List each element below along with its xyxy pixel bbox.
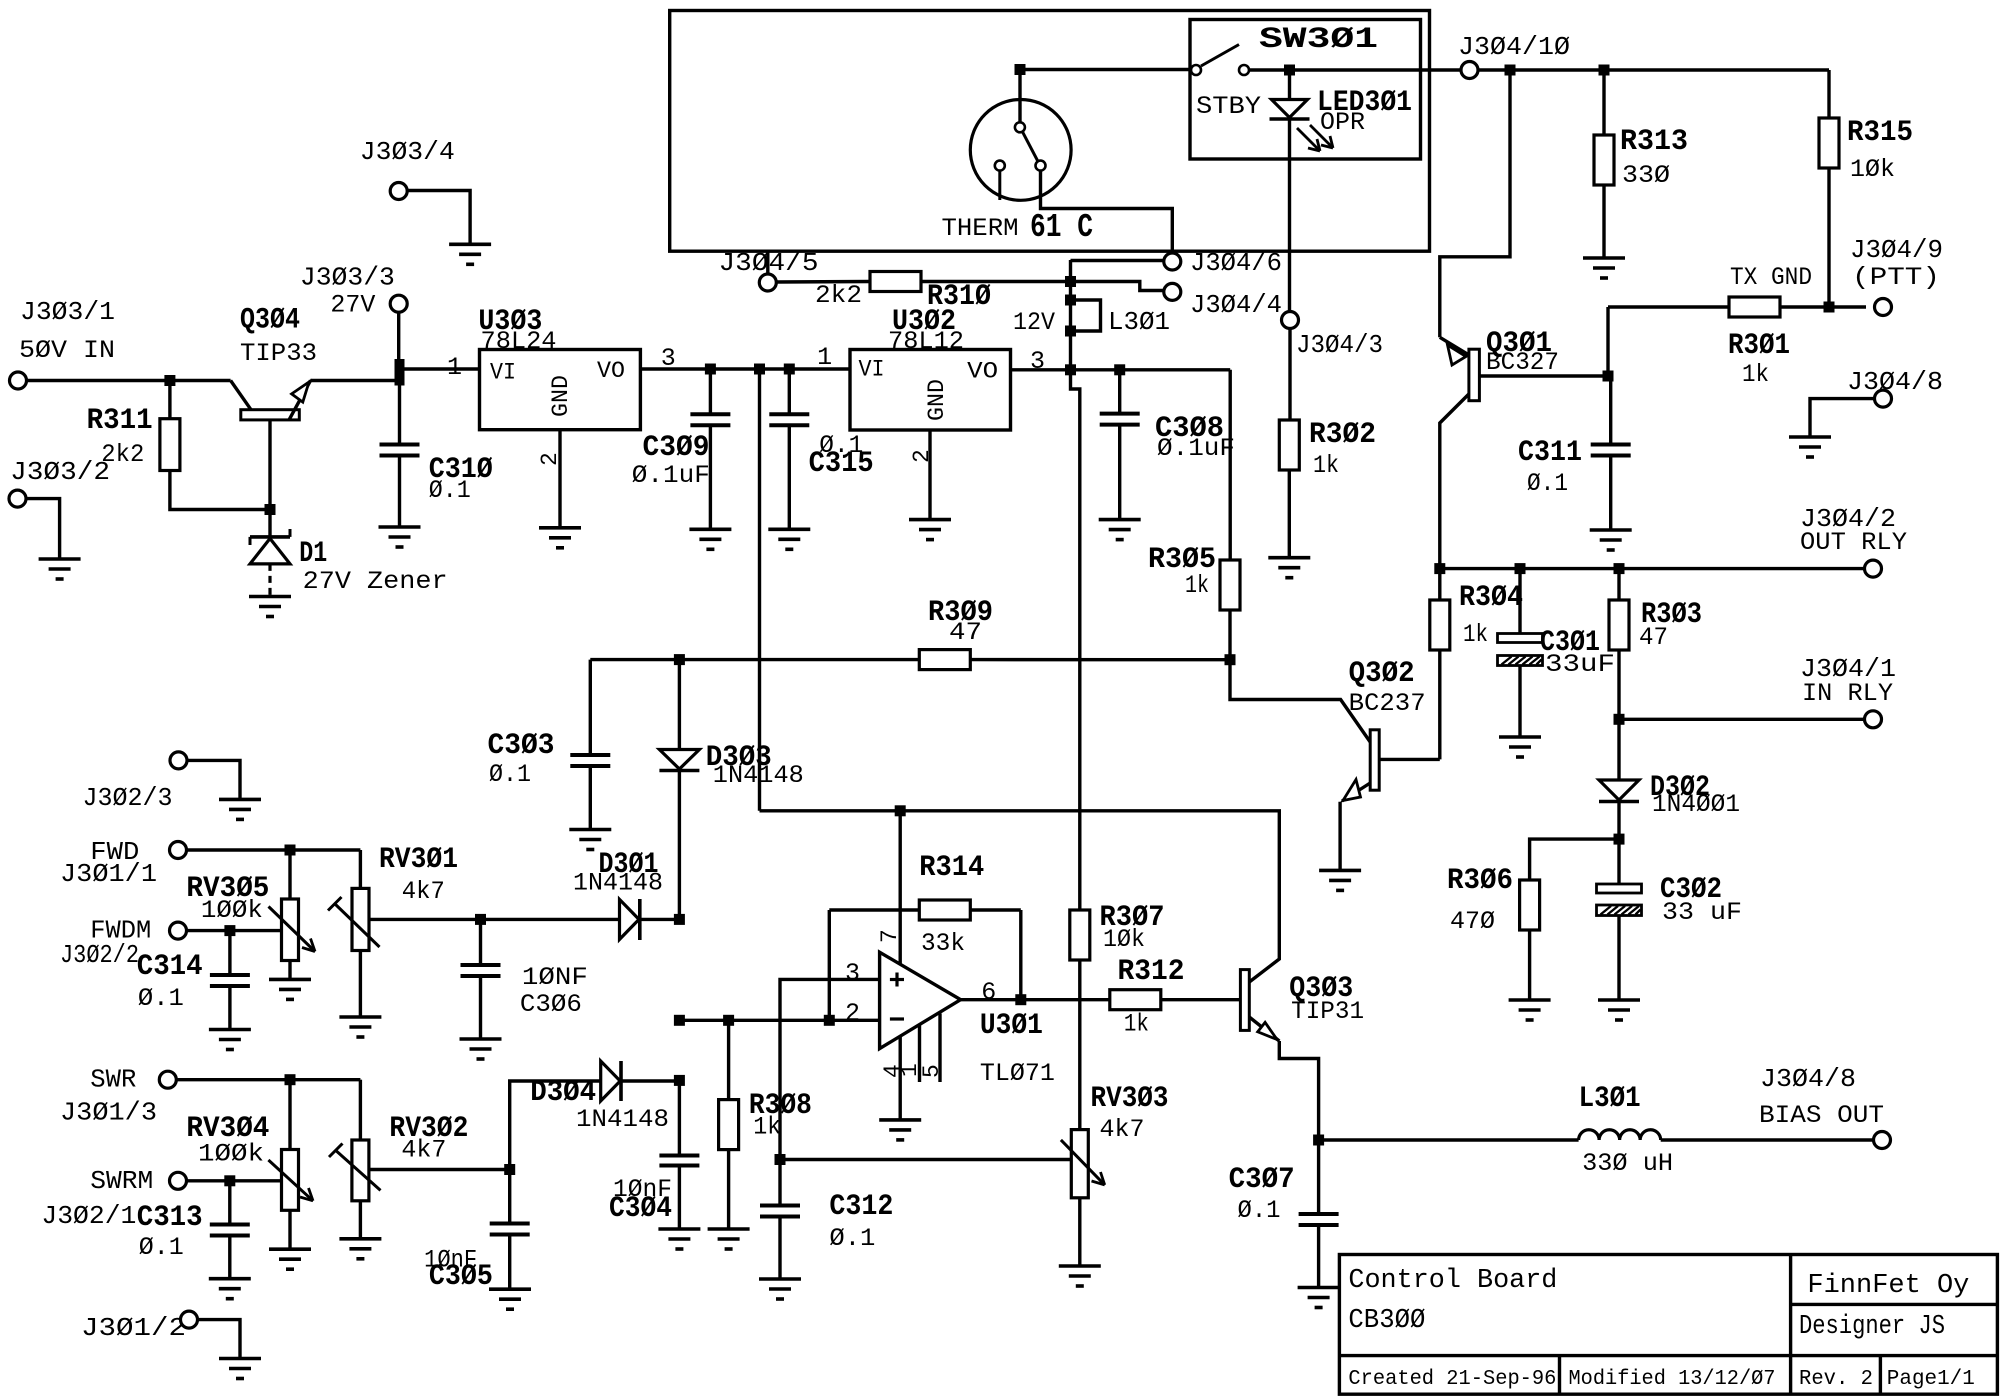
node D302 anode — [1614, 834, 1625, 845]
resistor R303 — [1617, 569, 1620, 600]
svg-text:J3Ø4/3: J3Ø4/3 — [1296, 330, 1383, 360]
wire R305 node to Q302 base — [1230, 660, 1370, 742]
svg-text:GND: GND — [924, 379, 950, 421]
switch SW301 left contact — [1191, 65, 1201, 75]
node C314 — [224, 925, 235, 936]
svg-text:J3Ø4/8: J3Ø4/8 — [1760, 1064, 1856, 1094]
capacitor C315 — [788, 369, 791, 414]
svg-text:J3Ø3/4: J3Ø3/4 — [360, 137, 455, 167]
wire to J304/4 — [1071, 282, 1164, 291]
svg-text:1N4148: 1N4148 — [573, 869, 663, 898]
node RV304 top — [285, 1074, 296, 1085]
terminal J304/1 — [1865, 711, 1882, 728]
ground below Q302 — [1319, 869, 1361, 873]
svg-text:BIAS OUT: BIAS OUT — [1759, 1101, 1884, 1130]
ground below C312 — [759, 1277, 801, 1281]
terminal J303/2 — [9, 490, 26, 507]
node D304 branch — [504, 1164, 515, 1175]
Q304 emitter arrow — [292, 382, 309, 402]
terminal J301/2 — [181, 1311, 198, 1328]
Q302 emitter arrow — [1343, 780, 1361, 801]
svg-text:2: 2 — [537, 452, 563, 466]
wire pin2 bus — [679, 1019, 879, 1022]
svg-text:C3Ø9: C3Ø9 — [643, 431, 710, 465]
feedback left vertical — [828, 910, 831, 1020]
wire BIAS to L301 — [1319, 1138, 1579, 1141]
wire pin3 — [780, 979, 880, 1159]
node C315 — [784, 364, 795, 375]
node D301/D303 — [674, 914, 685, 925]
node D304/D303 — [674, 1075, 685, 1086]
terminal J304/8 top — [1875, 390, 1892, 407]
svg-text:1N4148: 1N4148 — [576, 1105, 669, 1134]
svg-text:VO: VO — [597, 358, 625, 384]
terminal J304/6 — [1164, 253, 1181, 270]
node output/feedback — [1015, 994, 1026, 1005]
terminal J303/1 50V IN — [10, 372, 27, 389]
svg-text:1N4ØØ1: 1N4ØØ1 — [1652, 790, 1740, 819]
node R313 feed — [1599, 65, 1610, 76]
capacitor C303 — [589, 660, 592, 755]
svg-text:47: 47 — [1639, 623, 1668, 652]
ground below C302 — [1598, 998, 1640, 1002]
wire 50V IN — [27, 379, 231, 382]
node 24V drop — [754, 364, 765, 375]
wire RV303 wiper — [780, 1158, 1071, 1161]
RV303 arrow — [1061, 1140, 1105, 1185]
svg-text:6: 6 — [981, 978, 996, 1007]
svg-text:J3Ø4/1Ø: J3Ø4/1Ø — [1458, 32, 1570, 62]
terminal J304/3 — [1282, 312, 1299, 329]
capacitor C311 — [1608, 374, 1611, 377]
svg-text:1Øk: 1Øk — [1103, 925, 1145, 954]
capacitor C301 electrolytic — [1518, 569, 1521, 634]
node Q304 collector / D1 — [265, 504, 276, 515]
svg-text:Designer JS: Designer JS — [1799, 1312, 1945, 1342]
LED LED301 — [1284, 65, 1295, 76]
node R308 top — [723, 1015, 734, 1026]
svg-text:7: 7 — [877, 929, 903, 943]
U302 pin2 ground lead — [928, 430, 931, 520]
resistor R307 — [1070, 910, 1090, 960]
pin4 ground lead — [899, 1037, 902, 1120]
node C306 — [475, 914, 486, 925]
capacitor C308 — [1118, 370, 1121, 414]
ground below R306 — [1509, 998, 1551, 1002]
regulator U302 78L12 box — [850, 350, 1011, 431]
trimmer RV302 — [352, 1140, 369, 1201]
wire 24V rail to Q303 collector — [760, 811, 1280, 982]
svg-text:Created 21-Sep-96: Created 21-Sep-96 — [1348, 1368, 1556, 1391]
ground below J304/8 — [1789, 435, 1831, 439]
wire U302 VO 12V — [1011, 368, 1231, 371]
svg-text:TLØ71: TLØ71 — [980, 1059, 1055, 1088]
wire to J304/6 — [1071, 259, 1164, 262]
RV305 arrow — [269, 907, 316, 952]
RV304 ground lead — [288, 1210, 291, 1249]
resistor R311 — [168, 381, 171, 419]
svg-text:R3Ø1: R3Ø1 — [1728, 329, 1790, 363]
svg-text:C3Ø6: C3Ø6 — [520, 990, 582, 1019]
svg-text:C3Ø4: C3Ø4 — [609, 1192, 672, 1226]
svg-text:TIP33: TIP33 — [240, 339, 317, 368]
svg-text:Ø.1: Ø.1 — [139, 1233, 184, 1262]
Q303 emitter wire — [1249, 1017, 1279, 1041]
node R311 top — [164, 375, 175, 386]
svg-text:R312: R312 — [1118, 955, 1185, 989]
svg-text:GND: GND — [548, 375, 574, 417]
diode D303 — [678, 660, 681, 750]
terminal FWD — [170, 842, 187, 859]
capacitor C313 — [228, 1181, 231, 1225]
terminal J303/4 — [390, 183, 407, 200]
ground below C305 — [489, 1287, 531, 1291]
svg-text:R313: R313 — [1620, 125, 1688, 159]
wire SWRM to RV304 — [187, 1179, 282, 1182]
svg-text:J3Ø3/1: J3Ø3/1 — [20, 297, 115, 327]
node C301 — [1515, 563, 1526, 574]
node RV305 top — [285, 845, 296, 856]
resistor R302 — [1288, 329, 1291, 421]
svg-text:1ØØk: 1ØØk — [198, 1140, 264, 1169]
title block bottom divider 2 — [1879, 1356, 1882, 1395]
capacitor C305 — [508, 1170, 511, 1224]
svg-text:R311: R311 — [87, 404, 153, 438]
wire J301/2 to ground — [198, 1320, 241, 1359]
svg-text:1k: 1k — [1742, 360, 1769, 389]
svg-text:1k: 1k — [1313, 451, 1339, 480]
svg-text:Ø.1: Ø.1 — [429, 476, 471, 505]
zener diode D1 — [268, 510, 271, 537]
svg-text:1Øk: 1Øk — [1850, 155, 1895, 184]
terminal J304/10 — [1461, 62, 1478, 79]
node pin7 12V — [895, 805, 906, 816]
terminal J304/9 — [1875, 299, 1892, 316]
svg-text:(PTT): (PTT) — [1852, 263, 1940, 292]
thermal switch enclosure box — [670, 11, 1430, 252]
svg-text:J3Ø4/6: J3Ø4/6 — [1190, 248, 1282, 278]
svg-text:1ØØk: 1ØØk — [201, 896, 263, 925]
svg-text:C3Ø3: C3Ø3 — [488, 729, 555, 763]
svg-text:J3Ø1/1: J3Ø1/1 — [60, 859, 157, 889]
wire SWR bus — [176, 1078, 360, 1081]
Q304 emitter diag — [289, 381, 311, 420]
plus sign U301 — [890, 978, 904, 981]
Q301 collector wire — [1440, 394, 1469, 569]
svg-text:27V: 27V — [330, 291, 375, 320]
ground below C313 — [209, 1277, 251, 1281]
ground below C306 — [460, 1037, 502, 1041]
minus sign U301 — [890, 1017, 904, 1020]
wire L301 to J304/8 — [1661, 1138, 1874, 1141]
svg-text:OUT RLY: OUT RLY — [1800, 528, 1907, 557]
capacitor C312 — [778, 1160, 781, 1206]
THERM lever — [1023, 132, 1039, 162]
wire J304/10 to R315 — [1478, 68, 1829, 71]
ground below C314 — [209, 1028, 251, 1032]
ground below C311 — [1590, 528, 1632, 532]
wire OUT RLY bus — [1440, 567, 1865, 570]
wire STBY/OPR bus y70 inside box — [1020, 68, 1192, 71]
wire Q304 emitter to node — [311, 379, 396, 382]
LED301 emission arrows — [1297, 128, 1320, 151]
svg-text:3: 3 — [845, 959, 860, 988]
ground below J302/3 — [219, 798, 261, 802]
svg-text:FinnFet Oy: FinnFet Oy — [1807, 1271, 1969, 1301]
wire up to D304 — [510, 1081, 601, 1170]
transistor Q301 BC327 bar — [1469, 349, 1480, 401]
svg-text:C3Ø7: C3Ø7 — [1229, 1163, 1295, 1197]
diode D302 — [1617, 719, 1620, 780]
Q303 emitter arrow — [1258, 1022, 1277, 1039]
D1 dashed lead — [268, 564, 271, 595]
resistor R308 — [727, 1020, 730, 1099]
svg-text:Ø.1: Ø.1 — [829, 1224, 875, 1253]
svg-text:U3Ø1: U3Ø1 — [980, 1009, 1043, 1043]
wire 12V jog down — [1071, 370, 1080, 910]
regulator U303 78L24 box — [480, 350, 641, 430]
capacitor C314 — [228, 931, 231, 975]
svg-text:1k: 1k — [1463, 620, 1488, 649]
svg-text:SW3Ø1: SW3Ø1 — [1259, 23, 1378, 57]
trimmer RV304 — [288, 1080, 291, 1150]
transistor Q302 BC237 bar — [1370, 730, 1379, 790]
capacitor C309 — [709, 369, 712, 414]
svg-text:R314: R314 — [919, 851, 984, 885]
svg-text:Ø.1uF: Ø.1uF — [1157, 434, 1235, 463]
ground below R302 — [1268, 556, 1310, 560]
terminal J304/8 BIAS OUT — [1874, 1132, 1891, 1149]
node THERM top feed — [1015, 64, 1026, 75]
node R303 — [1614, 563, 1625, 574]
svg-text:1k: 1k — [1185, 571, 1209, 600]
svg-text:Page1/1: Page1/1 — [1887, 1368, 1975, 1391]
wire FWDM to RV305 — [187, 929, 282, 932]
wire J303/3 to rail — [397, 312, 400, 369]
svg-text:OPR: OPR — [1320, 108, 1365, 137]
svg-text:C311: C311 — [1518, 436, 1582, 470]
svg-text:Ø.1: Ø.1 — [1527, 469, 1568, 498]
pin1 stub — [918, 1025, 921, 1082]
svg-text:VI: VI — [490, 360, 516, 386]
svg-text:1k: 1k — [1124, 1010, 1149, 1039]
ground below RV303 — [1059, 1264, 1101, 1268]
svg-text:78L12: 78L12 — [888, 327, 964, 356]
pin7 supply lead — [899, 811, 902, 964]
svg-text:4k7: 4k7 — [401, 1136, 446, 1165]
svg-text:VO: VO — [967, 359, 998, 385]
svg-text:R31Ø: R31Ø — [927, 280, 991, 314]
svg-text:5: 5 — [919, 1064, 945, 1078]
svg-text:SWRM: SWRM — [90, 1166, 153, 1196]
wire THERM to J304/6 — [1041, 171, 1173, 253]
title block outer frame — [1339, 1255, 1997, 1395]
diode D304 — [601, 1061, 621, 1101]
svg-text:1k: 1k — [753, 1113, 781, 1142]
svg-text:R3Ø2: R3Ø2 — [1309, 418, 1376, 452]
svg-text:3: 3 — [661, 344, 676, 373]
node pin2/D303 — [674, 1015, 685, 1026]
wire J304/8 to ground — [1810, 399, 1875, 437]
svg-text:Q3Ø2: Q3Ø2 — [1349, 657, 1415, 691]
pin5 stub — [938, 1014, 941, 1083]
node Q301 emitter feed — [1505, 65, 1516, 76]
svg-text:J3Ø1/2: J3Ø1/2 — [81, 1313, 186, 1343]
transistor Q304 base bar — [241, 410, 299, 420]
node 27V rail — [395, 359, 405, 386]
wire 12V node vertical — [1069, 260, 1072, 370]
svg-text:BC237: BC237 — [1349, 689, 1426, 718]
svg-text:J3Ø2/3: J3Ø2/3 — [83, 783, 173, 813]
svg-text:3: 3 — [1030, 347, 1045, 376]
svg-text:J3Ø4/8: J3Ø4/8 — [1847, 367, 1943, 397]
svg-text:1: 1 — [817, 343, 832, 372]
node C313 — [224, 1175, 235, 1186]
resistor R306 — [1530, 839, 1619, 880]
wire J303/4 to ground — [407, 191, 470, 245]
resistor R315 — [1819, 118, 1839, 168]
RV305 ground lead — [288, 961, 291, 980]
capacitor C302 electrolytic — [1617, 839, 1620, 884]
ground below J301/2 — [219, 1357, 261, 1361]
svg-text:J3Ø3/3: J3Ø3/3 — [300, 263, 395, 293]
node D303 top — [674, 654, 685, 665]
ground below RV302 — [339, 1237, 381, 1241]
node R315/R301 — [1824, 302, 1835, 313]
thermostat THERM circle — [970, 99, 1071, 200]
trimmer RV303 — [1071, 1130, 1088, 1198]
wire U303 VO to U302 VI — [640, 367, 850, 370]
svg-text:RV3Ø3: RV3Ø3 — [1091, 1082, 1169, 1116]
svg-text:J3Ø4/9: J3Ø4/9 — [1850, 235, 1943, 265]
svg-text:Rev. 2: Rev. 2 — [1799, 1368, 1873, 1391]
svg-text:C312: C312 — [829, 1190, 893, 1224]
ground below C304 — [658, 1227, 700, 1231]
svg-text:4k7: 4k7 — [1100, 1115, 1145, 1144]
Q304 collector wire down — [268, 420, 271, 510]
terminal FWDM — [170, 922, 187, 939]
ground below J303/4 — [449, 243, 491, 247]
RV302 ground lead — [359, 1201, 362, 1239]
resistor R314 feedback — [829, 908, 919, 911]
resistor R301 — [1608, 305, 1729, 308]
transistor Q301 emitter wire — [1440, 70, 1510, 337]
node R310/J304-6 — [1065, 276, 1076, 287]
terminal J304/5 — [759, 274, 776, 291]
capacitor C306 — [479, 919, 482, 965]
svg-text:C313: C313 — [137, 1201, 203, 1235]
ground below C309 — [689, 527, 731, 531]
svg-text:BC327: BC327 — [1486, 348, 1559, 377]
wire FWD to RV301 — [359, 850, 362, 888]
wire LED301 cathode down to J304/3 — [1288, 119, 1291, 312]
THERM open contact stub — [995, 161, 1005, 171]
RV304 arrow — [268, 1160, 313, 1201]
terminal J303/3 — [390, 295, 407, 312]
Q302 collector wire — [1379, 758, 1440, 761]
wire IN RLY bus — [1619, 718, 1865, 721]
svg-text:4k7: 4k7 — [402, 877, 445, 906]
svg-text:THERM: THERM — [942, 214, 1019, 243]
title block vertical divider — [1789, 1255, 1792, 1395]
node feedback left — [824, 1015, 835, 1026]
ground below C315 — [768, 527, 810, 531]
ground below C301 — [1499, 735, 1541, 739]
svg-text:5ØV IN: 5ØV IN — [19, 336, 115, 365]
feedback right vertical — [1019, 910, 1022, 1000]
svg-text:C315: C315 — [809, 447, 874, 481]
ground below C303 — [569, 828, 611, 832]
svg-text:1: 1 — [447, 353, 462, 382]
svg-text:D1: D1 — [299, 537, 327, 571]
op-amp U301 triangle — [880, 952, 961, 1048]
svg-text:L3Ø1: L3Ø1 — [1579, 1082, 1641, 1116]
resistor R304 — [1438, 569, 1441, 600]
wire U301 output — [961, 998, 1110, 1001]
svg-text:2: 2 — [909, 449, 935, 463]
svg-text:C3Ø5: C3Ø5 — [429, 1260, 493, 1294]
switch SW301 lever — [1201, 45, 1239, 67]
svg-text:33uF: 33uF — [1545, 650, 1615, 679]
title block right divider — [1791, 1303, 1998, 1306]
svg-text:TX GND: TX GND — [1730, 263, 1812, 292]
svg-text:47: 47 — [949, 618, 982, 647]
ground below C310 — [379, 525, 421, 529]
terminal J302/3 — [170, 752, 187, 769]
ground below C307 — [1298, 1286, 1340, 1290]
capacitor C304 — [678, 1080, 681, 1155]
switch SW301 right contact — [1239, 65, 1249, 75]
title block horizontal divider — [1339, 1354, 1997, 1357]
resistor R310 — [776, 280, 870, 284]
svg-text:J3Ø1/3: J3Ø1/3 — [60, 1098, 157, 1128]
transistor Q304 TIP33 collector diag — [231, 381, 251, 410]
svg-text:J3Ø4/4: J3Ø4/4 — [1190, 290, 1282, 320]
ground below J303/2 — [39, 557, 81, 561]
svg-text:78L24: 78L24 — [481, 327, 557, 356]
RV301 arrow — [335, 904, 380, 948]
terminal J304/2 — [1865, 560, 1882, 577]
svg-text:R3Ø4: R3Ø4 — [1459, 581, 1523, 615]
node R305/R309 — [1225, 654, 1236, 665]
switch SW301 enclosure box — [1190, 20, 1421, 160]
wire rail to U303 VI — [405, 367, 480, 370]
node C308 — [1114, 364, 1125, 375]
wire RV301 wiper to D301 — [369, 918, 620, 921]
RV303 ground lead — [1078, 1198, 1081, 1266]
svg-text:47Ø: 47Ø — [1450, 907, 1495, 936]
terminal J304/4 — [1164, 283, 1181, 300]
svg-text:Ø.1: Ø.1 — [1238, 1196, 1281, 1225]
title block bottom divider 1 — [1558, 1356, 1561, 1395]
RV301 ground lead — [359, 951, 362, 1018]
THERM top contact — [1015, 122, 1025, 132]
resistor R305 — [1228, 370, 1231, 560]
ground below C308 — [1099, 518, 1141, 522]
Q302 emitter wire — [1342, 783, 1370, 801]
capacitor C310 — [398, 385, 401, 445]
svg-text:CB3ØØ: CB3ØØ — [1348, 1306, 1425, 1336]
resistor R309 feedback — [590, 658, 919, 661]
svg-text:SWR: SWR — [90, 1065, 136, 1095]
svg-text:IN RLY: IN RLY — [1802, 679, 1893, 708]
ground below RV305 — [269, 978, 311, 982]
svg-text:Ø.1: Ø.1 — [138, 984, 184, 1013]
wire J303/2 to ground — [26, 499, 60, 559]
node wiper/C312 — [775, 1154, 786, 1165]
terminal SWRM — [170, 1172, 187, 1189]
svg-text:Ø.1: Ø.1 — [489, 760, 531, 789]
